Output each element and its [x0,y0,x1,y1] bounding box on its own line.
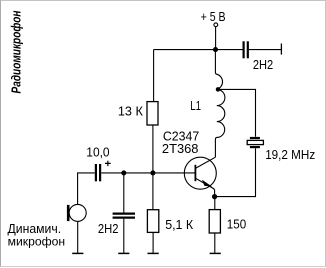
ground under R2 [148,252,159,254]
transistor VT1 [184,157,216,196]
node junction base row / R 5.1K [151,171,155,175]
wire top rail horizontal [154,49,243,51]
label + polarity of C1 [105,161,111,166]
svg-text:микрофон: микрофон [8,235,66,249]
svg-text:150: 150 [227,217,246,232]
wire L1 tap to crystal column [217,89,256,136]
svg-text:2Н2: 2Н2 [253,58,273,72]
wire base row [101,172,195,174]
capacitor C1 10,0 [95,164,97,181]
svg-text:Радиомикрофон: Радиомикрофон [10,10,24,93]
wire crystal down and left to emitter junction [215,148,256,196]
capacitor 2H2 top (output to antenna) [243,41,245,58]
svg-text:19,2 МHz: 19,2 МHz [265,148,315,162]
wire cap to antenna stub [249,49,282,51]
svg-text:5,1 К: 5,1 К [165,217,193,232]
svg-text:L1: L1 [190,99,201,113]
ground under microphone [72,252,83,254]
wire C2 down to ground [123,219,125,253]
wire +5V terminal down to top rail [215,27,217,50]
svg-text:10,0: 10,0 [86,144,109,159]
resistor R3 150 [214,198,216,210]
node junction base row / C 2H2 [122,171,126,175]
node +5V supply terminal [214,23,218,27]
wire R3 down to ground [214,233,216,253]
svg-text:13 К: 13 К [118,104,143,119]
wire cap 10,0 left to mic [78,173,95,204]
svg-text:Динамич.: Динамич. [8,222,62,236]
ground under C2 [118,252,129,254]
wire R1 13K down to base junction [152,125,154,173]
node L1 tap junction [216,88,219,91]
ground under R3 [210,252,221,254]
resistor R2 5,1K [152,173,154,210]
resistor R1 13K [147,102,158,125]
node emitter junction [213,195,217,199]
wire R2 down to ground [152,232,154,252]
crystal ZQ1 19.2 MHz [247,138,263,147]
svg-text:2Н2: 2Н2 [98,221,119,236]
microphone BM1 [68,204,86,221]
inductor L1 [215,52,225,158]
svg-text:+ 5 В: + 5 В [201,10,226,24]
svg-text:2Т368: 2Т368 [162,142,199,156]
capacitor C2 2H2 (bottom) [123,173,125,213]
node junction top rail [214,48,218,52]
wire mic down to ground [77,221,79,252]
wire left column down from rail to R 13K [153,50,155,102]
node antenna stub [280,44,282,55]
